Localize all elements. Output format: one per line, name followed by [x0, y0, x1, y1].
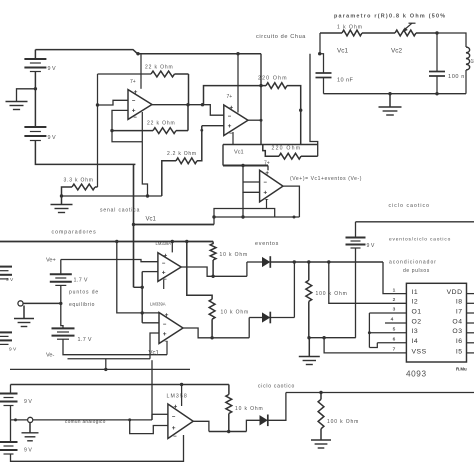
label eventos — [255, 241, 279, 247]
svg-text:+: + — [162, 270, 166, 277]
wire eventos bus — [270, 261, 383, 263]
svg-text:eventos/ciclo caotico: eventos/ciclo caotico — [389, 237, 451, 243]
pin label O4 — [452, 318, 462, 325]
svg-text:22 k Ohm: 22 k Ohm — [147, 121, 175, 127]
label Ve- — [46, 353, 55, 359]
svg-text:10 k Ohm: 10 k Ohm — [235, 406, 263, 412]
wire A2 pin4 stub — [232, 132, 234, 145]
svg-text:22 k Ohm: 22 k Ohm — [145, 65, 173, 71]
node dot Vc2 top — [435, 31, 438, 34]
ground G5 — [299, 338, 320, 365]
node dot R12 bottom — [227, 430, 230, 433]
svg-text:I3: I3 — [412, 328, 419, 335]
wire tap to ground — [17, 89, 36, 102]
svg-text:−: − — [228, 114, 232, 120]
wire A3 pin4 run — [214, 209, 275, 225]
svg-text:I5: I5 — [456, 348, 463, 355]
label R.Mu — [456, 367, 467, 372]
wire A1 non-inverting input — [112, 110, 128, 130]
wire A1 pin4 chain — [142, 142, 147, 196]
op-amp A1 — [128, 89, 152, 121]
wire A5 -in — [152, 414, 168, 420]
node dot top rail A1 — [136, 52, 139, 55]
svg-text:Vc2: Vc2 — [391, 48, 402, 55]
svg-text:100 k Ohm: 100 k Ohm — [316, 291, 348, 297]
wire bottom +9 rail — [11, 384, 229, 386]
pin lead right VDD — [467, 293, 474, 295]
svg-text:4: 4 — [391, 317, 394, 323]
svg-text:I1: I1 — [412, 289, 419, 296]
wire D2 anode riser — [248, 318, 250, 338]
label Vc1 a — [146, 217, 157, 223]
node dot rail c — [185, 240, 188, 243]
svg-text:+: + — [228, 123, 232, 130]
wire A5 out run — [209, 431, 247, 433]
wire B3 bottom — [60, 285, 62, 303]
svg-text:7: 7 — [393, 347, 396, 353]
svg-text:Vc1: Vc1 — [234, 150, 244, 156]
svg-text:I8: I8 — [456, 299, 463, 306]
pin label I6 — [456, 338, 463, 345]
wire A5 pin7 — [181, 385, 183, 407]
diode D1 — [262, 256, 270, 268]
wire Vc1 horizontal run — [223, 144, 318, 146]
wire A3 inverting feedback — [243, 182, 260, 217]
resistor R12 10k — [226, 385, 232, 432]
pin label I7 — [456, 308, 463, 315]
wire D1 anode riser — [246, 262, 248, 276]
pin lead O2 stub — [385, 322, 406, 324]
pin number 2 — [393, 297, 396, 303]
wire U3 pin4 stub — [163, 280, 165, 290]
capacitor C2 100nF — [429, 33, 445, 94]
pin number 7 — [393, 347, 396, 353]
wire Vc1 bottom drop — [151, 360, 153, 420]
wire D3 anode step — [246, 420, 259, 431]
svg-text:de pulsos: de pulsos — [403, 268, 430, 274]
label A2 pin7+ — [227, 94, 233, 100]
wire T1 to mid — [23, 302, 61, 304]
label eventos/ciclo — [389, 237, 451, 243]
node dot rail a — [115, 240, 118, 243]
svg-text:−: − — [164, 339, 168, 345]
wire O1 to I3/I4 — [369, 313, 406, 348]
svg-text:1.7 V: 1.7 V — [74, 278, 88, 284]
pin label I4 — [412, 338, 419, 345]
battery B7 9V — [0, 420, 32, 454]
svg-text:+: + — [265, 170, 269, 177]
svg-text:9 V: 9 V — [48, 135, 56, 141]
op-amp A5 — [168, 404, 193, 440]
svg-text:10 k Ohm: 10 k Ohm — [221, 310, 249, 316]
svg-text:3: 3 — [393, 307, 396, 313]
svg-text:−: − — [173, 434, 177, 440]
svg-text:circuito de Chua: circuito de Chua — [256, 34, 306, 40]
label R3 3.3 k Ohm — [64, 178, 94, 184]
resistor R5 220 (upper) — [204, 83, 301, 145]
battery B3 1.7V — [50, 274, 88, 285]
label comparadores — [52, 230, 97, 236]
label R13 100 k Ohm — [327, 419, 359, 425]
wire A2 out vertical — [260, 54, 262, 145]
label ciclo caotico bottom — [258, 384, 295, 390]
wire box left vertical — [97, 74, 99, 187]
wire A5 output — [193, 421, 209, 431]
wire Vc1 bus — [223, 165, 268, 167]
pin lead right O3 — [467, 332, 474, 334]
node dot A3 fb — [241, 215, 244, 218]
svg-text:−: − — [163, 322, 167, 328]
wire U3 +in — [142, 271, 158, 273]
svg-text:1.7 V: 1.7 V — [78, 337, 92, 343]
svg-text:100 n: 100 n — [448, 74, 465, 80]
terminal circle T1 — [18, 301, 23, 306]
svg-text:+: + — [164, 252, 168, 259]
wire A1 pin7 supply — [140, 54, 142, 89]
svg-text:+: + — [172, 425, 176, 432]
wire B1-B2 link — [34, 72, 36, 128]
node dot R10 bottom — [210, 336, 213, 339]
node dot eq mid — [59, 302, 62, 305]
svg-text:parametro r(R)0.8 k Ohm (50%: parametro r(R)0.8 k Ohm (50% — [334, 14, 446, 20]
wire Vc1 comp drop — [134, 286, 143, 288]
wire A1 fb step — [112, 131, 142, 142]
wire Vc1 riser right — [310, 54, 318, 157]
wire U4 +in stub — [150, 333, 159, 359]
pin label O3 — [452, 328, 462, 335]
svg-text:I4: I4 — [412, 338, 419, 345]
wire Vc1 to C1 — [320, 54, 324, 73]
label circuito de Chua — [256, 34, 306, 40]
svg-text:acondicionador: acondicionador — [389, 260, 437, 266]
svg-text:9 V: 9 V — [367, 243, 375, 249]
pin label I1 — [412, 289, 419, 296]
diode D3 — [260, 415, 268, 427]
label 1 k Ohm — [337, 25, 363, 31]
potentiometer R8 — [395, 23, 437, 36]
svg-text:9 V: 9 V — [6, 277, 14, 283]
pin label O2 — [412, 318, 422, 325]
label parametro — [334, 14, 446, 20]
svg-text:+: + — [263, 189, 267, 196]
node dot tank gnd — [388, 92, 391, 95]
svg-text:ciclo caotico: ciclo caotico — [258, 384, 295, 390]
wire A3 output — [283, 186, 299, 217]
wire U4 pin4 stub — [166, 341, 168, 355]
pin number 5 — [393, 327, 396, 333]
node dot gnd a — [307, 336, 310, 339]
label L1 — [471, 59, 474, 65]
svg-text:O4: O4 — [452, 318, 462, 325]
label Vc1 b — [234, 150, 244, 156]
node dot A1 -in — [96, 103, 99, 106]
wire D2 riser to bus — [293, 262, 295, 318]
wire A2 output — [248, 119, 261, 121]
label R2 22 k Ohm — [147, 121, 175, 127]
svg-text:+: + — [134, 89, 138, 96]
svg-text:Vc1: Vc1 — [146, 217, 157, 223]
wire U4 supply from rail — [117, 242, 159, 313]
svg-text:LM339A: LM339A — [150, 302, 166, 307]
label Vc1 d — [149, 351, 160, 357]
label R11 100 k Ohm — [316, 291, 348, 297]
resistor R2 22k (A1 bottom feedback) — [112, 105, 188, 134]
wire A2 inverting step — [203, 105, 224, 116]
node dot C2 bottom — [435, 92, 438, 95]
wire I2 feed — [329, 262, 407, 303]
label A5 LM358 — [167, 394, 188, 400]
pin lead I3 — [369, 332, 406, 334]
svg-text:I6: I6 — [456, 338, 463, 345]
svg-text:LM358: LM358 — [167, 394, 188, 400]
wire mid to B4 — [61, 303, 63, 328]
wire A3 pin7 stub — [267, 166, 269, 171]
node dot A3 ret corner — [212, 215, 215, 218]
wire Vc1 to comparators — [134, 224, 215, 226]
resistor R10 10k — [187, 242, 215, 338]
node dot I3 tie — [368, 331, 371, 334]
wire U3 pin7 — [171, 242, 173, 253]
node dot R9 bottom — [211, 275, 214, 278]
node dot bus i2 — [327, 260, 330, 263]
node dot bus r100k — [307, 260, 310, 263]
battery B4 1.7V — [52, 328, 92, 343]
svg-text:Vc1: Vc1 — [337, 48, 348, 55]
pin label I2 — [412, 299, 419, 306]
svg-text:O1: O1 — [412, 308, 422, 315]
pin label O1 — [412, 308, 422, 315]
node dot top rail A2 — [236, 52, 239, 55]
label R9 10 k Ohm — [220, 252, 248, 258]
svg-text:7+: 7+ — [264, 160, 270, 166]
wire R7 riser — [319, 33, 321, 53]
node dot R4 riser — [200, 129, 203, 132]
svg-text:O3: O3 — [452, 328, 462, 335]
svg-text:+: + — [229, 105, 233, 112]
wire A5 +in loop — [128, 418, 168, 433]
label U3 LM339 — [156, 241, 172, 246]
pin lead right I5 — [467, 352, 474, 354]
node dot R5 low — [299, 109, 302, 112]
label Ve equation — [290, 176, 362, 182]
ground G7 — [311, 440, 331, 448]
wire D1 anode lead — [247, 261, 262, 263]
battery B3f 9V (edge) — [0, 267, 14, 283]
battery B6 9V — [0, 385, 32, 406]
svg-text:senal caotica: senal caotica — [100, 208, 140, 214]
wire U3 output — [181, 267, 247, 276]
node dot gnd b — [322, 336, 325, 339]
pin lead right I8 — [467, 302, 474, 304]
wire A1 pin4 down — [141, 112, 143, 142]
svg-text:LM339A: LM339A — [156, 241, 172, 246]
wire I1 feed — [383, 262, 406, 294]
pin lead right I7 — [467, 312, 474, 314]
svg-text:7+: 7+ — [227, 94, 233, 100]
node dot comp minus — [104, 368, 107, 371]
resistor R1 22k (A1 top feedback) — [151, 71, 189, 105]
op-amp A3 — [260, 170, 283, 203]
wire A1 output — [152, 104, 203, 106]
label senal caotica — [100, 208, 140, 214]
svg-text:−: − — [263, 180, 267, 186]
svg-text:+: + — [165, 312, 169, 319]
resistor R7 1k — [320, 30, 395, 36]
svg-text:9 V: 9 V — [24, 448, 32, 454]
svg-text:9 V: 9 V — [24, 399, 32, 405]
resistor R13 100k — [318, 393, 324, 441]
svg-text:ciclo caotico: ciclo caotico — [389, 203, 431, 209]
node dot Vc1-comp — [132, 223, 135, 226]
wire senal ground run — [62, 195, 162, 197]
svg-text:4093: 4093 — [406, 370, 427, 379]
svg-text:3.3 k Ohm: 3.3 k Ohm — [64, 178, 94, 184]
label R1 22 k Ohm — [145, 65, 173, 71]
node dot bus d2 — [293, 260, 296, 263]
wire U4 output — [183, 328, 249, 338]
svg-text:100 k Ohm: 100 k Ohm — [327, 419, 359, 425]
wire comp minus stub — [105, 359, 107, 370]
wire bottom -9 rail — [11, 435, 184, 461]
wire common left — [11, 418, 28, 421]
wire B5 minus — [355, 248, 357, 338]
svg-text:VDD: VDD — [447, 289, 463, 296]
svg-text:10 nF: 10 nF — [337, 78, 353, 84]
wire B2 minus run — [35, 141, 135, 165]
resistor R3 3.3k — [62, 184, 98, 196]
wire U4 -in — [142, 322, 159, 324]
wire A3 out return — [214, 216, 299, 218]
wire Ve+ to U3 — [61, 260, 158, 262]
wire Ve+ stem — [60, 260, 62, 275]
op-amp A2 — [224, 105, 248, 137]
label 4093 — [406, 370, 427, 379]
label Vc2 — [391, 48, 402, 55]
wire Vc1 comp vertical — [141, 272, 143, 323]
wire VSS feed — [324, 338, 406, 353]
svg-text:I2: I2 — [412, 299, 419, 306]
terminal circle T2 — [28, 417, 33, 422]
label comun analogico — [65, 419, 106, 424]
wire +9V top rail — [35, 50, 261, 54]
ground G2 — [51, 196, 73, 213]
svg-text:I7: I7 — [456, 308, 463, 315]
resistor R4 2.2k — [162, 126, 202, 196]
comparator U3 (LM339) — [158, 252, 181, 283]
node dot U4 supply — [141, 311, 144, 314]
wire A3 pin4 stub — [266, 199, 268, 209]
node dot Vc1 node — [318, 52, 321, 55]
label R10 10 k Ohm — [221, 310, 249, 316]
label de pulsos — [403, 268, 430, 274]
node dot A1 out fb — [186, 103, 189, 106]
wire A2 pin7 supply — [237, 54, 239, 113]
svg-text:−: − — [162, 261, 166, 267]
node dot pin4-ground — [146, 194, 149, 197]
wire gnd node run — [309, 337, 356, 339]
svg-text:+: + — [163, 331, 167, 338]
node dot battery tap — [34, 87, 37, 90]
wire Vc1 to A3 +in — [243, 166, 260, 193]
battery B1 9V — [24, 59, 56, 72]
battery B2 9V — [24, 127, 56, 141]
wire B6 minus to common — [10, 406, 12, 420]
wire Vc2 to L — [437, 33, 466, 47]
battery B4f 9V (edge) — [0, 332, 17, 352]
pin number 6 — [393, 337, 396, 343]
pin label I8 — [456, 299, 463, 306]
label R4 2.2 k Ohm — [167, 151, 197, 157]
svg-text:puntos de: puntos de — [69, 290, 99, 296]
svg-text:−: − — [172, 415, 176, 421]
wire tank bottom — [324, 93, 467, 95]
wire +9V comparator rail — [0, 241, 213, 243]
node dot rail b — [171, 240, 174, 243]
svg-text:Vc1: Vc1 — [149, 351, 160, 357]
node dot R5-A2out cross — [259, 84, 262, 87]
label Ve+ — [46, 258, 56, 264]
svg-text:VSS: VSS — [412, 348, 427, 355]
label ciclo caotico top — [389, 203, 431, 209]
ground G4 — [14, 306, 34, 327]
wire Vc1 left drop — [222, 145, 224, 166]
wire D2 cathode — [270, 317, 294, 319]
svg-text:eventos: eventos — [255, 241, 279, 247]
label C1 10 nF — [337, 78, 353, 84]
pin label I3 — [412, 328, 419, 335]
svg-text:220 Ohm: 220 Ohm — [272, 145, 302, 151]
inductor L1 — [466, 47, 470, 94]
wire A2 non-inverting input — [202, 125, 224, 127]
node dot A3 ret mid — [293, 216, 296, 219]
svg-text:−: − — [132, 99, 136, 105]
svg-text:5: 5 — [393, 327, 396, 333]
wire -9V drop to comparators — [133, 164, 135, 287]
diode D2 — [262, 312, 270, 324]
pin label VSS — [412, 348, 427, 355]
svg-text:equilibrio: equilibrio — [69, 302, 95, 308]
IC U5 4093 body — [406, 283, 466, 362]
svg-text:9 V: 9 V — [9, 347, 17, 353]
pin number 1 — [393, 287, 396, 293]
svg-text:220 Ohm: 220 Ohm — [258, 75, 288, 81]
ground G3 — [379, 94, 402, 115]
svg-text:O2: O2 — [412, 318, 422, 325]
wire B1 top to +rail — [34, 50, 36, 59]
label R5 220 Ohm — [258, 75, 288, 81]
label Vc1 c — [337, 48, 348, 55]
svg-text:2: 2 — [393, 297, 396, 303]
wire common run — [33, 419, 152, 421]
label puntos de — [69, 290, 99, 296]
resistor R11 100k — [306, 262, 312, 338]
pin number 4 — [391, 317, 394, 323]
svg-text:(Ve+)= Vc1+eventos (Ve-): (Ve+)= Vc1+eventos (Ve-) — [290, 176, 362, 182]
svg-text:9 V: 9 V — [48, 66, 56, 72]
svg-text:comparadores: comparadores — [52, 230, 97, 236]
resistor R6 220 (lower) — [263, 145, 318, 160]
battery B5 9V — [346, 222, 375, 249]
node dot A1 +in feedback — [110, 129, 113, 132]
label U4 LM339 — [150, 302, 166, 307]
ground G1 — [6, 102, 28, 110]
label acondicionador — [389, 260, 437, 266]
wire A1 inverting input — [98, 100, 129, 105]
pin number 3 — [393, 307, 396, 313]
wire Ve- run — [63, 339, 167, 355]
node dot A5 supply — [180, 383, 183, 386]
svg-text:1: 1 — [393, 287, 396, 293]
